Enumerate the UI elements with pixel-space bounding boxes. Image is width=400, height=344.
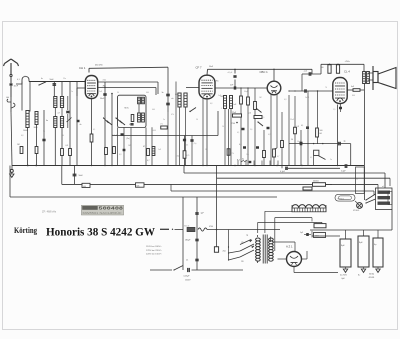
svg-text:10n: 10n (246, 154, 249, 156)
svg-text:70: 70 (325, 87, 327, 89)
svg-text:CF 7: CF 7 (196, 66, 203, 70)
svg-text:6,8: 6,8 (210, 103, 212, 105)
svg-text:1M: 1M (17, 144, 20, 146)
svg-text:2n: 2n (330, 159, 332, 161)
svg-text:10nF: 10nF (14, 86, 19, 88)
svg-text:000: 000 (175, 94, 178, 96)
svg-text:0,5: 0,5 (262, 117, 264, 119)
svg-text:30/1Ω: 30/1Ω (369, 274, 375, 276)
svg-text:MW8501 NACHPRÜF: MW8501 NACHPRÜF (83, 211, 123, 215)
svg-text:4n: 4n (80, 124, 82, 126)
svg-text:+250v: +250v (345, 61, 350, 63)
svg-text:4,5: 4,5 (239, 144, 242, 146)
svg-text:5μF: 5μF (300, 232, 303, 234)
svg-text:+0,5: +0,5 (304, 71, 308, 73)
svg-text:25n: 25n (63, 78, 66, 80)
svg-text:6,8: 6,8 (21, 135, 23, 137)
svg-text:0,2: 0,2 (268, 134, 270, 136)
svg-text:0,1: 0,1 (93, 129, 95, 131)
svg-text:4μ: 4μ (344, 141, 346, 143)
svg-text:4/2/4Ω: 4/2/4Ω (369, 277, 375, 279)
svg-text:Körting: Körting (14, 226, 38, 235)
svg-text:180μF: 180μF (185, 240, 191, 242)
svg-text:V3 BL/L: V3 BL/L (353, 210, 359, 212)
svg-text:0,1: 0,1 (301, 125, 303, 127)
svg-text:846: 846 (352, 95, 355, 97)
svg-text:2700: 2700 (231, 123, 235, 125)
svg-text:30n: 30n (186, 145, 189, 147)
svg-text:1n: 1n (71, 91, 73, 93)
svg-text:A Z 1: A Z 1 (286, 245, 293, 249)
svg-text:4700: 4700 (209, 226, 213, 228)
svg-text:0,3: 0,3 (119, 154, 121, 156)
svg-text:4x 250V: 4x 250V (340, 275, 348, 277)
svg-text:50: 50 (196, 119, 198, 121)
svg-text:220V bei 150V≈: 220V bei 150V≈ (146, 253, 162, 256)
svg-text:CH 1: CH 1 (79, 66, 86, 70)
svg-text:10 nF: 10 nF (232, 104, 238, 106)
svg-text:1,3: 1,3 (297, 126, 300, 128)
svg-text:Honoris 38 S 4242 GW: Honoris 38 S 4242 GW (46, 224, 155, 238)
svg-text:B-3: B-3 (237, 160, 240, 162)
svg-text:HG: HG (83, 186, 86, 188)
svg-text:CL 4: CL 4 (344, 70, 350, 74)
svg-text:000: 000 (152, 109, 155, 111)
svg-text:100: 100 (321, 67, 324, 69)
svg-text:500408: 500408 (99, 206, 124, 212)
svg-text:2,5: 2,5 (249, 113, 252, 115)
svg-text:30: 30 (62, 135, 64, 137)
svg-text:0,1μF: 0,1μF (280, 171, 286, 173)
svg-text:76v: 76v (216, 81, 219, 83)
svg-text:7,2v: 7,2v (103, 80, 107, 82)
svg-text:2n: 2n (163, 119, 165, 121)
svg-text:1500V: 1500V (185, 280, 191, 282)
svg-text:30: 30 (117, 92, 119, 94)
svg-text:47k: 47k (171, 114, 174, 116)
svg-text:1nF: 1nF (218, 95, 221, 97)
svg-text:500: 500 (320, 130, 323, 132)
svg-text:3n: 3n (162, 92, 164, 94)
svg-text:2x0,1: 2x0,1 (305, 97, 309, 99)
svg-text:0,1: 0,1 (310, 157, 312, 159)
svg-text:27k: 27k (231, 153, 234, 155)
svg-text:0,05μF: 0,05μF (184, 276, 191, 278)
svg-text:0,3: 0,3 (284, 99, 286, 101)
svg-text:+0,1μF: +0,1μF (227, 72, 232, 74)
svg-text:4,7: 4,7 (58, 113, 60, 115)
svg-text:.5: .5 (221, 108, 222, 110)
svg-text:5000: 5000 (152, 130, 156, 132)
svg-text:30pF: 30pF (244, 91, 248, 93)
svg-text:50: 50 (43, 131, 45, 133)
svg-text:(2n): (2n) (127, 138, 131, 140)
svg-text:5,6: 5,6 (250, 129, 252, 131)
svg-text:DL: DL (186, 260, 188, 262)
svg-text:5nF: 5nF (99, 91, 102, 93)
svg-text:4n: 4n (46, 120, 48, 122)
svg-text:V-951/1: V-951/1 (338, 198, 345, 200)
svg-text:(2n): (2n) (194, 143, 197, 145)
svg-text:500kΩ: 500kΩ (313, 181, 319, 183)
svg-text:3000: 3000 (34, 127, 38, 129)
svg-text:MOC: MOC (125, 108, 130, 110)
svg-text:17k: 17k (160, 124, 163, 126)
svg-text:0,3: 0,3 (66, 145, 69, 147)
svg-text:125: 125 (241, 242, 244, 244)
svg-text:ZF: 468 kHz: ZF: 468 kHz (42, 210, 57, 214)
svg-text:000: 000 (221, 96, 224, 98)
svg-text:47: 47 (143, 146, 145, 148)
svg-text:20: 20 (222, 126, 224, 128)
svg-text:25nF: 25nF (290, 119, 294, 121)
svg-text:seh: seh (171, 98, 174, 100)
svg-text:Δ≈: Δ≈ (358, 274, 360, 277)
svg-text:4,7: 4,7 (277, 156, 279, 158)
svg-text:464 kHz: 464 kHz (95, 65, 103, 67)
svg-text:125V bei 220V≈: 125V bei 220V≈ (146, 249, 162, 252)
svg-text:220: 220 (241, 261, 244, 263)
svg-text:50: 50 (291, 139, 293, 141)
svg-text:An: An (41, 77, 43, 80)
svg-text:1k: 1k (205, 149, 207, 151)
svg-text:110V bei 240V≈: 110V bei 240V≈ (146, 245, 162, 248)
svg-text:4,7: 4,7 (147, 160, 150, 162)
svg-text:1,5: 1,5 (333, 109, 335, 111)
svg-text:CBC 1: CBC 1 (260, 70, 269, 74)
svg-text:0,1: 0,1 (237, 132, 239, 134)
svg-text:1nF: 1nF (158, 149, 161, 151)
svg-text:0,1: 0,1 (24, 76, 26, 78)
svg-text:0,25: 0,25 (186, 155, 189, 157)
svg-text:400: 400 (146, 92, 149, 94)
svg-text:0,1: 0,1 (17, 79, 20, 81)
svg-text:50nF: 50nF (297, 141, 301, 143)
